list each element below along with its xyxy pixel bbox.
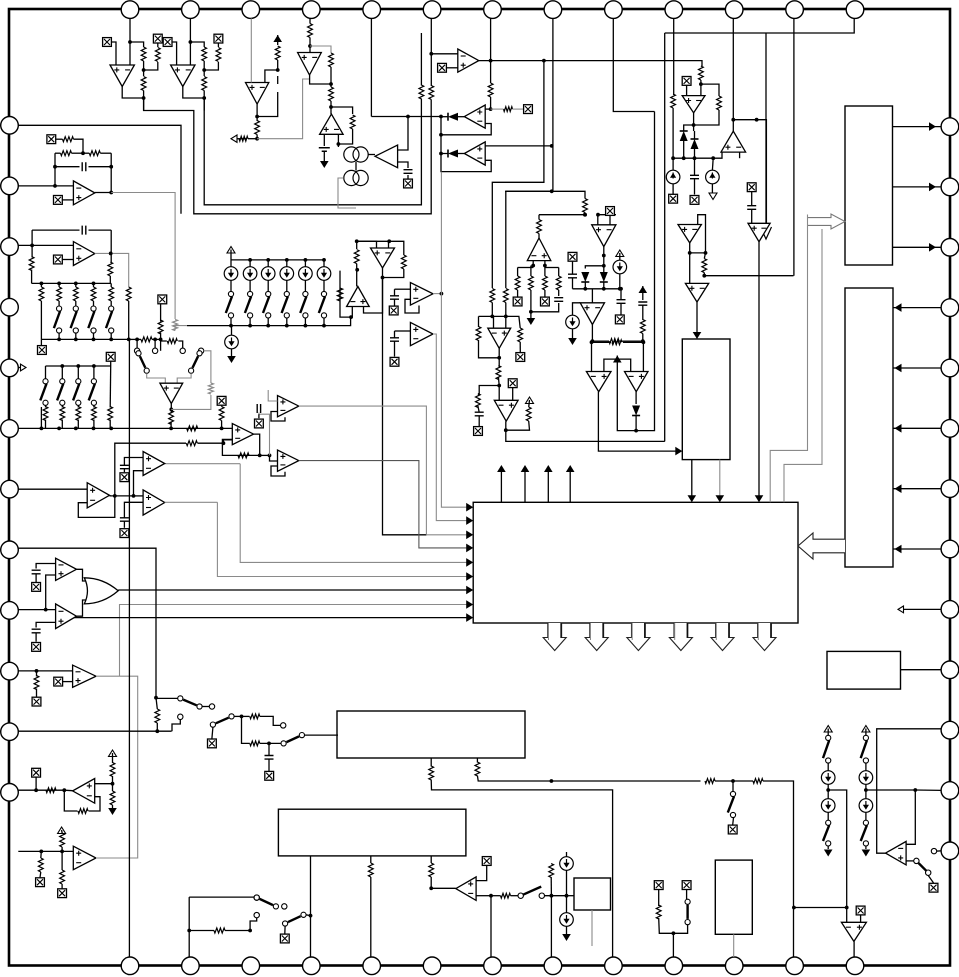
resistor R17 — [529, 276, 534, 290]
wire bus x794 — [793, 18, 795, 275]
wire arrow mid — [604, 359, 631, 371]
current source IS7 — [225, 335, 239, 349]
wire swe dn — [673, 925, 687, 934]
wire swb3 — [234, 715, 249, 717]
resistor R39 — [141, 337, 152, 342]
pad X C24 — [747, 183, 756, 192]
pin — [1, 177, 19, 195]
wire AD plus net — [36, 622, 56, 627]
resistor R1b — [155, 48, 160, 62]
resistor RL2 — [73, 287, 78, 301]
wire R57 dn — [112, 776, 114, 791]
row3 arrow — [426, 534, 468, 536]
wire blockC dn — [591, 910, 593, 946]
wire bus x371 — [370, 18, 372, 116]
row6 gray real — [217, 502, 468, 576]
wire IS3 — [267, 280, 269, 291]
opamp U3 — [246, 83, 269, 105]
opamp U42 — [841, 922, 866, 941]
resistor R49 — [496, 366, 501, 380]
pin — [1, 662, 19, 680]
resistor R48 — [518, 328, 523, 342]
wire U5 minus down — [337, 144, 339, 147]
wire mirror link — [355, 162, 357, 171]
wire D2 wires — [441, 135, 448, 154]
bus stem blk 6 — [770, 623, 772, 638]
wire AC to OR — [77, 569, 89, 581]
opamp U35 — [56, 558, 77, 580]
wire y907 net — [794, 907, 847, 909]
wire net x766 arrow — [765, 33, 767, 226]
wire blk3 pin — [901, 669, 942, 671]
wire blk2 row 549 — [893, 548, 942, 550]
wire y191 stub — [506, 190, 552, 192]
pad X SWC — [732, 818, 735, 825]
wire rail y283 — [32, 282, 112, 284]
pad X C35 — [265, 771, 274, 780]
wire AB out — [165, 501, 218, 503]
wire swb3b — [260, 716, 281, 725]
cap C31 — [120, 465, 129, 468]
opamp U26 — [73, 242, 94, 266]
wire R to node cell2 — [203, 61, 205, 76]
contact SWB2 — [178, 714, 183, 719]
wire W rails — [31, 230, 33, 257]
wire opamp out cell1 — [122, 87, 143, 99]
pin — [423, 957, 441, 975]
cap C28 — [82, 162, 86, 171]
wire R13 tail — [490, 97, 492, 109]
output bus arrow 3 — [627, 623, 650, 651]
pad X1 — [103, 38, 112, 47]
opamp U24 — [278, 396, 299, 417]
wire rail y215 — [539, 214, 585, 216]
resistor R52 — [612, 340, 622, 345]
arrow AF ref — [109, 750, 117, 757]
current mirror pair 1 — [344, 147, 359, 162]
arrow up col643 — [639, 286, 648, 293]
resistor R16 — [515, 276, 520, 290]
switch SWB3 — [210, 722, 215, 727]
wire T up net — [259, 414, 270, 455]
pin — [121, 957, 139, 975]
pin — [484, 1, 502, 19]
wire rail y289 — [573, 288, 620, 290]
switch SWE — [685, 899, 690, 904]
switch SW3 — [266, 291, 271, 296]
contact a1b — [152, 348, 157, 353]
wire R27 dn — [356, 264, 358, 287]
wire leg rail — [518, 267, 534, 269]
pin — [1, 420, 19, 438]
wire R20 up — [505, 191, 585, 198]
pin — [846, 957, 864, 975]
diode D4 — [581, 272, 589, 282]
pad X AL — [508, 379, 517, 388]
wire AH minus net — [476, 895, 491, 897]
resistor R69 — [368, 863, 373, 877]
wire SW4 dn — [286, 318, 288, 326]
pin — [941, 782, 959, 800]
switch SWH — [283, 921, 288, 926]
contact SWD1 — [518, 893, 523, 898]
col1 mid — [865, 784, 867, 798]
rail283 dot 0 — [40, 282, 44, 286]
block E small — [715, 860, 752, 934]
diode D2 — [448, 150, 458, 158]
wire rail y242 — [357, 240, 390, 242]
wire pin right arrow — [902, 608, 942, 610]
resistor R53 — [186, 441, 197, 446]
wire pad to opamp cell2 — [172, 42, 176, 65]
wire pad to opamp cell1 — [112, 42, 116, 65]
pin — [941, 299, 959, 317]
wire diode rails — [683, 141, 685, 158]
rail283 dot 4 — [110, 282, 112, 284]
wire blkD leg2 — [719, 460, 721, 496]
wire pin12 — [18, 850, 73, 852]
opamp U10 — [527, 238, 551, 261]
resistor R73 — [656, 905, 661, 919]
resistor R67 — [705, 779, 715, 784]
current source IS6 — [317, 267, 331, 281]
resistor R10 — [329, 87, 334, 101]
wire U9 fb — [441, 154, 491, 172]
wire bus x431 — [430, 18, 432, 86]
wire swb4 feed — [242, 716, 250, 743]
opamp U8 — [464, 105, 485, 128]
wire SW5 dn — [304, 318, 306, 326]
pad X U7 — [438, 63, 447, 72]
wire U24 minus stub — [271, 412, 285, 422]
switch SWF2 — [926, 870, 931, 875]
gray pipe 1 — [770, 215, 807, 503]
wire R49 dn — [497, 377, 500, 386]
wire rail2 — [115, 443, 186, 496]
wire rail y260 — [230, 250, 232, 267]
pin — [786, 1, 804, 19]
col0 csrc1 — [821, 771, 835, 785]
wire rail feed U12 — [591, 289, 593, 303]
wire U9 plus long — [485, 145, 552, 147]
wire fb cell2 — [203, 91, 205, 111]
wire x551 net — [550, 781, 552, 864]
pad X AI — [856, 906, 865, 915]
opamp U13 — [682, 96, 705, 113]
wire x655 bus — [654, 112, 656, 341]
pin — [303, 957, 321, 975]
wire X-U11 — [609, 216, 611, 225]
wire blk2 row 488.7 — [893, 488, 942, 490]
pin — [941, 721, 959, 739]
wire top R8 — [309, 18, 311, 23]
contact a2 — [180, 348, 185, 353]
pad X U26 — [54, 255, 63, 264]
wire blkD leg1 — [691, 460, 693, 496]
wire AL inL — [498, 386, 500, 401]
pad X C23 — [690, 196, 699, 205]
contact SWB1b — [209, 704, 214, 709]
wire IS6 — [323, 280, 325, 291]
resistor R15 — [537, 220, 542, 234]
resistor R68 — [753, 779, 763, 784]
opamp U30 — [586, 372, 611, 392]
opamp U36 — [56, 604, 77, 629]
cap C19 — [558, 290, 560, 296]
col0 sw bot — [827, 812, 829, 820]
diode D5 — [680, 131, 688, 141]
resistor R33 — [61, 151, 72, 156]
col0 wire — [827, 763, 829, 771]
wire U26 out gray — [95, 253, 129, 287]
arrow dn U5 — [323, 152, 325, 162]
block central logic — [473, 502, 798, 623]
resistor R13 — [488, 83, 493, 97]
wire U20 out row1 — [433, 293, 441, 295]
resistor R37 — [108, 262, 113, 276]
switch SW1 — [228, 291, 233, 296]
wire x551 dn — [550, 896, 552, 957]
wire AM out — [598, 392, 676, 451]
resistor RL4 — [109, 287, 114, 301]
wire R23 dn — [672, 108, 674, 158]
wire spdt2 feed — [161, 339, 167, 341]
wire SW1 dn — [230, 318, 232, 326]
wire pad2 cell2 — [217, 43, 219, 47]
pad X18 — [544, 290, 546, 297]
pin — [1, 723, 19, 741]
cap C20 — [568, 274, 577, 278]
wire R24 node — [700, 80, 702, 96]
contact SWG1 — [254, 895, 259, 900]
wire AJ in net — [906, 790, 915, 844]
wire pin5 rail — [18, 427, 232, 429]
open arrow down net — [761, 227, 772, 239]
wire cross cell1 — [144, 62, 158, 70]
wire rail2 y215 — [598, 214, 616, 216]
wire pin11 — [18, 789, 64, 791]
wire R17 tail — [530, 290, 532, 312]
resistor RL3 — [91, 287, 96, 301]
wire U12 out — [591, 325, 593, 342]
wire AB plus — [134, 495, 144, 497]
col1 csrc2 — [859, 799, 873, 813]
bus arrow into top-right block — [808, 214, 846, 229]
wire net h116 — [371, 116, 441, 118]
pin — [303, 1, 321, 19]
wire U8 plus — [485, 108, 490, 110]
resistor R71 — [501, 893, 511, 898]
pad X BM1 — [654, 881, 663, 890]
wire opamp out cell2 — [183, 87, 204, 99]
wire AC minus net — [36, 564, 56, 569]
wire AF out — [64, 789, 72, 792]
block A bottom — [337, 711, 525, 758]
cap C35 — [265, 756, 274, 760]
resistor R11 — [350, 115, 355, 129]
wire blk1 rows — [893, 126, 942, 128]
resistor R35 — [173, 320, 178, 331]
wire pin to opamp cell2 — [189, 18, 191, 65]
wire U27 out — [170, 404, 172, 414]
wire I5 net — [566, 870, 568, 912]
wire AK rails — [491, 303, 493, 317]
resistor R46 — [503, 289, 508, 303]
wire leg3 sw — [93, 301, 95, 306]
switch S0 dash — [277, 76, 279, 84]
wire AD to OR — [77, 600, 89, 616]
wire node to R cell1 — [130, 42, 144, 47]
pin — [941, 420, 959, 438]
col1 wire — [865, 763, 867, 771]
wire R14 gray — [491, 108, 504, 110]
switch SWX1 — [144, 368, 149, 373]
wire leg stubs — [517, 268, 519, 277]
pad X C27 — [258, 414, 260, 418]
arrow up ref — [273, 35, 282, 42]
wire Z fb — [78, 496, 115, 518]
wire col1 out — [828, 790, 847, 908]
contact SWG3 — [282, 904, 287, 909]
switch SW5 — [303, 291, 308, 296]
wire U10 legs — [532, 261, 534, 268]
bus stem blk 2 — [602, 623, 604, 638]
wire bus x673 — [673, 18, 675, 95]
pad X U6 — [404, 179, 413, 188]
terminal arrow left — [231, 135, 237, 142]
resistor R12 — [429, 86, 434, 100]
resistor R47 — [476, 327, 481, 341]
wire U25 gray route — [111, 193, 175, 320]
wire cell2 route — [204, 98, 421, 205]
wire R30 dn — [221, 421, 223, 429]
bank2 res1 — [60, 407, 65, 421]
wire long x129 — [128, 253, 130, 339]
col0 arr dn — [827, 846, 829, 849]
rail283 dot 1 — [57, 282, 61, 286]
resistor R26 — [702, 259, 707, 273]
pad X C30 — [474, 427, 483, 436]
pad X3 — [163, 38, 172, 47]
pad X SWF — [928, 875, 933, 883]
resistor R3c — [202, 77, 207, 91]
wire D1 wires — [441, 116, 448, 118]
pad X R14 — [524, 105, 533, 114]
wire rail y342 — [592, 341, 612, 343]
cap C22 — [638, 302, 647, 305]
output bus arrow 6 — [753, 623, 776, 651]
switch SWG2 — [254, 895, 259, 900]
logic up arrow 3 — [547, 472, 549, 502]
wire AF plus — [95, 783, 113, 785]
wire swx wires — [147, 373, 166, 383]
resistor R57 — [110, 763, 115, 777]
pin — [786, 957, 804, 975]
pin — [941, 601, 959, 619]
contact SWG4 — [254, 912, 259, 917]
pin — [363, 957, 381, 975]
wire blk2 row 368 — [893, 367, 942, 369]
wire U19 inR — [388, 241, 390, 248]
wire blockE dn — [733, 934, 735, 957]
wire K to L — [733, 120, 766, 224]
output bus arrow 5 — [711, 623, 734, 651]
output bus arrow 1 — [543, 623, 566, 651]
wire diode tails — [603, 282, 605, 289]
wire fb cell1 — [143, 91, 145, 111]
opamp U33 — [143, 452, 165, 476]
pin — [423, 1, 441, 19]
opamp U18 — [347, 287, 370, 307]
wire AK inR — [505, 316, 507, 328]
logic up arrow 2 — [524, 472, 526, 502]
opamp U31 — [625, 372, 649, 392]
wire gray to rail — [175, 326, 187, 331]
resistor R44 — [187, 426, 198, 431]
resistor R29 — [401, 255, 406, 269]
pin — [941, 842, 959, 860]
current source I5 — [560, 857, 574, 871]
resistor R34 — [89, 151, 100, 156]
pad X C21 — [615, 315, 624, 324]
wire I2 up — [573, 303, 581, 315]
wire AC plus — [46, 575, 56, 610]
wire U27 gray fb — [171, 395, 211, 409]
contact SWB3c — [281, 723, 286, 728]
battery bias U5 — [319, 148, 330, 152]
opamp U19 — [371, 248, 395, 268]
switch SWD2 — [539, 893, 544, 898]
col1 arr dn — [865, 846, 867, 849]
pin — [544, 957, 562, 975]
wire pin4 arrow — [18, 367, 21, 369]
bank2 sw1 — [61, 366, 63, 379]
pad X16 — [517, 290, 519, 297]
wire AM inL — [591, 342, 593, 371]
opamp U5 — [320, 114, 344, 134]
wire AN inR — [642, 342, 644, 371]
resistor R59 — [38, 858, 43, 872]
block C small — [574, 878, 611, 910]
pad X C25 — [394, 299, 396, 306]
resistor RL0 — [39, 287, 44, 301]
pad X AE — [54, 677, 63, 686]
wire swg rail2 — [188, 897, 190, 957]
wire node to R cell2 — [190, 42, 204, 47]
resistor R58 — [110, 791, 115, 805]
wire R10 node — [330, 101, 332, 114]
wire U25 out — [95, 192, 111, 194]
wire X-U13 — [686, 86, 688, 96]
wire U3 gray right — [257, 79, 310, 139]
pad X top sw — [106, 352, 115, 361]
cap C33 — [32, 570, 41, 574]
wire AA minus — [134, 471, 144, 496]
switch SW2 — [248, 291, 253, 296]
col1 sw top — [863, 735, 868, 740]
resistor R32 — [63, 137, 74, 142]
resistor R41 — [167, 339, 177, 344]
wire R29 — [389, 241, 404, 255]
resistor R30 — [219, 407, 224, 421]
wire R15-U10 — [538, 215, 540, 220]
wire c22 dn — [642, 305, 644, 320]
row7 black OR — [118, 589, 468, 591]
bus stem gray 2 — [590, 623, 592, 640]
wire pin9 — [18, 670, 72, 672]
resistor R40 — [158, 320, 163, 334]
wire node to T — [260, 454, 270, 456]
